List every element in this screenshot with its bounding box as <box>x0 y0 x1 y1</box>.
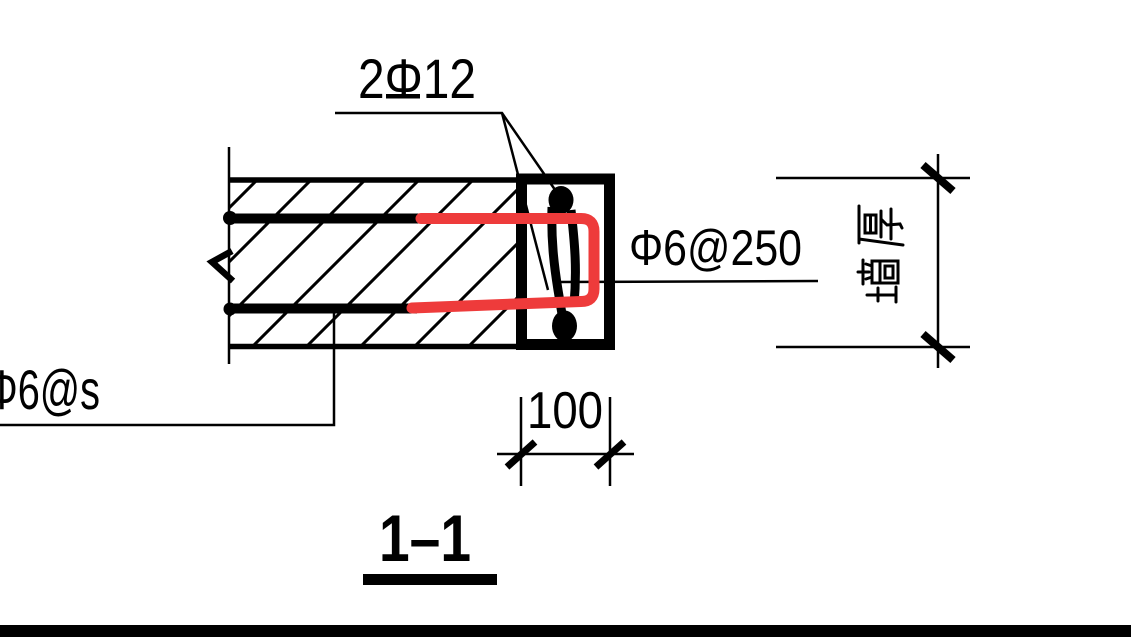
svg-text:Φ6@s: Φ6@s <box>0 358 100 421</box>
svg-text:100: 100 <box>527 382 603 440</box>
svg-text:Φ6@250: Φ6@250 <box>629 220 802 276</box>
svg-text:1–1: 1–1 <box>379 501 471 575</box>
svg-text:2Φ12: 2Φ12 <box>358 47 476 110</box>
